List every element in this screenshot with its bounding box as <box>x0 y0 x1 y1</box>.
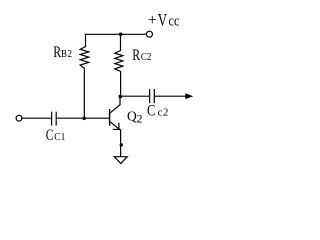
svg-text:2: 2 <box>137 112 143 126</box>
svg-text:cc: cc <box>169 12 180 28</box>
svg-text:B2: B2 <box>61 50 72 61</box>
svg-text:+: + <box>148 12 157 29</box>
svg-text:C1: C1 <box>54 132 66 143</box>
svg-text:c2: c2 <box>158 107 169 119</box>
svg-text:C2: C2 <box>141 52 152 63</box>
svg-text:R: R <box>132 46 140 64</box>
svg-text:C: C <box>46 127 54 144</box>
svg-text:C: C <box>147 102 155 120</box>
svg-text:Q: Q <box>127 108 137 123</box>
svg-text:V: V <box>158 11 168 31</box>
